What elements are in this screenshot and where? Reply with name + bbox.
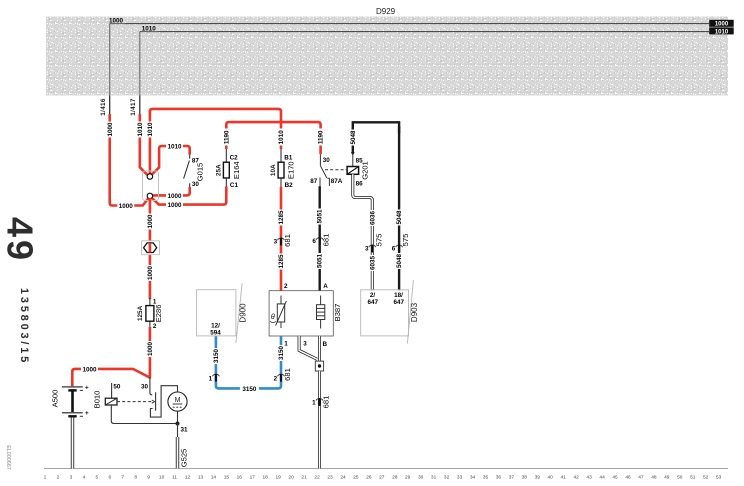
thermostat B387 box: [269, 283, 333, 348]
heater resistor element: [317, 296, 325, 329]
svg-text:135803/15: 135803/15: [18, 288, 30, 365]
svg-text:53: 53: [716, 474, 722, 480]
svg-text:681: 681: [283, 234, 292, 247]
svg-text:D903: D903: [410, 302, 419, 322]
wire 1010 junction to fuse feed bus: [147, 109, 281, 175]
relay contact 30/87/87A: [310, 154, 342, 186]
svg-text:G525: G525: [179, 449, 188, 468]
svg-text:2/: 2/: [370, 292, 376, 299]
svg-text:B2: B2: [285, 182, 294, 189]
svg-text:1000: 1000: [109, 17, 124, 24]
wire 3150 D900 to splice: [212, 336, 285, 393]
svg-text:12/: 12/: [211, 322, 220, 329]
B010 coil actuating dashed link: [117, 400, 155, 403]
svg-text:C1: C1: [230, 182, 239, 189]
svg-text:33: 33: [457, 474, 463, 480]
wire 1000 E286 to B010 pin 30: [146, 327, 154, 379]
svg-text:1000: 1000: [147, 266, 154, 281]
svg-text:44: 44: [599, 474, 605, 480]
svg-text:86: 86: [356, 180, 364, 187]
svg-text:16: 16: [237, 474, 243, 480]
svg-text:2: 2: [153, 323, 157, 330]
svg-text:18/: 18/: [394, 292, 403, 299]
crimp joint connector: [142, 241, 160, 255]
fuse E286 125A: [137, 298, 163, 330]
relay coil B010: [105, 398, 117, 405]
svg-text:87: 87: [310, 178, 318, 185]
svg-text:24: 24: [340, 474, 346, 480]
svg-text:50: 50: [113, 383, 121, 390]
relay contact G015: [184, 155, 200, 188]
svg-text:36: 36: [496, 474, 502, 480]
svg-text:G201: G201: [361, 161, 370, 180]
wire 1000 battery to B010 pin 30: [72, 365, 150, 386]
svg-text:6036: 6036: [369, 211, 376, 226]
svg-text:A: A: [323, 283, 328, 290]
svg-text:2: 2: [274, 376, 278, 383]
ground wire from B387 pins 3 and B: [299, 336, 319, 361]
battery ground wire: [71, 418, 74, 469]
connector 681 pin 2 on wire 3150: [274, 368, 292, 382]
B010 coil ground path: [111, 405, 177, 424]
svg-text:19: 19: [276, 474, 282, 480]
svg-text:29: 29: [405, 474, 411, 480]
label D929: [376, 7, 396, 16]
svg-text:C2: C2: [230, 155, 239, 162]
svg-text:28: 28: [392, 474, 398, 480]
svg-text:1000: 1000: [167, 202, 182, 209]
svg-text:1190: 1190: [223, 130, 230, 144]
svg-text:39: 39: [535, 474, 541, 480]
svg-text:1010: 1010: [167, 144, 182, 151]
svg-text:681: 681: [283, 368, 292, 381]
svg-text:1285: 1285: [278, 210, 285, 225]
svg-text:42: 42: [574, 474, 580, 480]
label G015: [196, 163, 205, 182]
svg-text:B010: B010: [93, 391, 102, 409]
wire 1000 E164 to junction: [151, 187, 226, 210]
svg-text:5048: 5048: [350, 130, 357, 145]
svg-text:47: 47: [638, 474, 644, 480]
svg-text:1010: 1010: [147, 122, 154, 137]
svg-text:31: 31: [431, 474, 437, 480]
svg-text:125A: 125A: [137, 305, 144, 321]
svg-text:1000: 1000: [167, 193, 182, 200]
wire 1010 to fuse E170: [278, 129, 286, 150]
wire 1/416 1000 from bus to junction: [100, 24, 149, 211]
svg-text:87A: 87A: [331, 178, 343, 185]
svg-text:B1: B1: [284, 155, 293, 162]
label A500: [51, 390, 60, 408]
svg-text:M: M: [175, 397, 181, 404]
connector D903 outline: [361, 280, 419, 344]
svg-text:41: 41: [561, 474, 567, 480]
svg-text:6035: 6035: [369, 256, 376, 271]
svg-text:13: 13: [198, 474, 204, 480]
starter contact bridge: [155, 392, 157, 410]
svg-text:50: 50: [677, 474, 683, 480]
svg-text:647: 647: [394, 299, 405, 306]
svg-text:1285: 1285: [278, 254, 285, 269]
svg-text:25A: 25A: [216, 164, 223, 176]
svg-text:4: 4: [83, 474, 86, 480]
wire 5051 to B387 pin A: [316, 186, 324, 290]
battery A500: [62, 384, 89, 417]
svg-text:1/417: 1/417: [130, 98, 137, 116]
plot id EL000667: [5, 445, 11, 470]
bus wire 1010: [140, 25, 709, 33]
svg-text:D929: D929: [376, 7, 396, 16]
svg-text:27: 27: [379, 474, 385, 480]
connector 575 pin 3 on wire 6036: [365, 234, 383, 253]
svg-text:3150: 3150: [213, 349, 220, 364]
wire 1010 junction to G015 pin 87: [151, 143, 190, 176]
motor to ground wire: [177, 411, 179, 423]
svg-text:6: 6: [312, 238, 316, 245]
svg-text:E164: E164: [232, 161, 241, 179]
starter B010 pin 30 contact: [141, 377, 152, 395]
ruler baseline: [44, 468, 728, 470]
svg-text:12: 12: [185, 474, 191, 480]
ground wire 681 to bottom: [318, 371, 321, 469]
svg-text:10: 10: [159, 474, 165, 480]
fuse E164 25A: [216, 149, 242, 189]
svg-text:E170: E170: [287, 161, 296, 179]
svg-text:+: +: [85, 410, 89, 417]
connector 681 pin 6 on wire 5051: [312, 234, 330, 247]
wire 5048 to D903: [396, 126, 404, 290]
svg-text:2: 2: [284, 283, 288, 290]
svg-text:1000: 1000: [715, 22, 729, 28]
wire 1190 to fuse E164: [223, 129, 231, 150]
svg-text:1010: 1010: [715, 29, 729, 35]
fuse E170 10A: [270, 149, 296, 189]
connector 681 pin 1 on ground wire: [312, 396, 330, 409]
label B010: [93, 391, 102, 409]
svg-text:30: 30: [323, 157, 331, 164]
svg-text:+: +: [85, 384, 89, 391]
svg-text:3: 3: [70, 474, 73, 480]
svg-text:48: 48: [651, 474, 657, 480]
G015 housing outline: [143, 171, 159, 201]
harness band D929: [46, 17, 728, 96]
svg-text:5051: 5051: [317, 209, 324, 224]
connector 681 pin 3 on wire 1285: [274, 234, 292, 247]
svg-text:1190: 1190: [318, 130, 325, 144]
wire 5048 to relay coil G201 pin 85: [349, 128, 363, 167]
svg-text:3: 3: [274, 239, 278, 246]
svg-text:31: 31: [181, 426, 189, 433]
svg-text:575: 575: [401, 234, 410, 247]
svg-text:45: 45: [612, 474, 618, 480]
wire 1/417 1010 from bus to junction: [130, 32, 149, 177]
connector 575 pin 6 on wire 5048: [392, 234, 410, 253]
svg-text:1010: 1010: [278, 130, 285, 145]
svg-text:8: 8: [134, 474, 137, 480]
svg-text:A500: A500: [51, 390, 60, 408]
svg-text:5048: 5048: [396, 210, 403, 225]
svg-text:11: 11: [172, 474, 177, 480]
svg-text:D900: D900: [239, 303, 248, 323]
splice housing with junction: [315, 361, 323, 371]
svg-text:1: 1: [153, 298, 157, 305]
svg-text:1000: 1000: [147, 214, 154, 229]
label B387: [333, 304, 342, 322]
wire 6036 G201 pin 86 to connector: [353, 174, 377, 290]
svg-text:43: 43: [586, 474, 592, 480]
wire 31 to ground G525: [178, 424, 189, 469]
svg-text:594: 594: [210, 329, 221, 336]
junction node lower: [147, 193, 153, 199]
svg-text:1: 1: [44, 474, 47, 480]
svg-text:647: 647: [368, 299, 379, 306]
svg-text:1/416: 1/416: [100, 98, 107, 116]
svg-text:1000: 1000: [147, 342, 154, 357]
svg-text:θ: θ: [271, 312, 275, 321]
svg-text:B387: B387: [333, 304, 342, 322]
svg-text:20: 20: [288, 474, 294, 480]
junction dot: [176, 422, 180, 426]
svg-text:30: 30: [141, 383, 149, 390]
svg-text:49: 49: [0, 217, 41, 263]
temperature sensor element: [270, 296, 286, 329]
svg-text:2: 2: [57, 474, 60, 480]
svg-text:3150: 3150: [242, 386, 257, 393]
terminal box 1010: [709, 27, 734, 35]
terminal box 1000: [709, 20, 734, 28]
relay coil G201: [347, 167, 359, 175]
svg-text:22: 22: [314, 474, 320, 480]
svg-text:26: 26: [366, 474, 372, 480]
svg-text:9: 9: [147, 474, 150, 480]
bus wire 1000: [108, 17, 709, 25]
svg-text:23: 23: [327, 474, 333, 480]
ruler numbers 1-53: [44, 474, 722, 480]
svg-text:1010: 1010: [142, 25, 157, 32]
svg-text:35: 35: [483, 474, 489, 480]
fuse feed bus wire: [226, 122, 320, 133]
svg-text:17: 17: [250, 474, 256, 480]
connector pin 1 on wire 3150: [209, 374, 220, 382]
svg-text:1: 1: [209, 376, 213, 383]
sheet number 135803/15: [18, 288, 30, 365]
motor M1: [168, 392, 187, 411]
label G201: [361, 161, 370, 180]
svg-text:1: 1: [312, 400, 316, 407]
svg-text:34: 34: [470, 474, 476, 480]
starter lower contact to motor wire: [150, 386, 177, 417]
svg-text:5: 5: [95, 474, 98, 480]
svg-text:49: 49: [664, 474, 670, 480]
wire 5048 top bus: [353, 122, 399, 133]
svg-text:1000: 1000: [82, 367, 97, 374]
svg-text:30: 30: [418, 474, 424, 480]
svg-text:681: 681: [322, 234, 331, 247]
svg-text:38: 38: [522, 474, 528, 480]
svg-text:14: 14: [211, 474, 217, 480]
wire 1285 E170 to B387 pin 2: [278, 187, 286, 291]
svg-text:5051: 5051: [317, 254, 324, 269]
svg-text:25: 25: [353, 474, 359, 480]
svg-text:681: 681: [322, 396, 331, 409]
svg-text:10A: 10A: [270, 164, 277, 176]
svg-text:40: 40: [548, 474, 554, 480]
svg-text:37: 37: [509, 474, 515, 480]
svg-text:B: B: [323, 341, 328, 348]
svg-text:E286: E286: [154, 305, 163, 323]
svg-text:3: 3: [303, 340, 307, 347]
svg-text:1010: 1010: [137, 122, 144, 137]
page number 49: [0, 217, 41, 263]
wire 1190 to relay contact: [317, 129, 325, 155]
svg-text:EL000667: EL000667: [5, 445, 11, 470]
svg-text:7: 7: [121, 474, 124, 480]
svg-text:1000: 1000: [119, 203, 134, 210]
svg-text:3150: 3150: [278, 346, 285, 361]
junction node upper: [147, 174, 153, 180]
control unit D900 outline: [197, 284, 248, 343]
svg-text:G015: G015: [196, 163, 205, 182]
svg-text:32: 32: [444, 474, 450, 480]
svg-text:52: 52: [703, 474, 709, 480]
svg-text:18: 18: [263, 474, 269, 480]
svg-text:5048: 5048: [396, 254, 403, 269]
relay actuating dashed link: [325, 169, 347, 171]
wire 1000 junction down to E286: [146, 198, 154, 299]
svg-text:6: 6: [392, 246, 396, 253]
wire 1000 G015 pin 30 to junction: [153, 187, 190, 200]
ground G525 label: [179, 449, 188, 468]
svg-text:1000: 1000: [107, 122, 114, 137]
svg-text:46: 46: [625, 474, 631, 480]
svg-text:15: 15: [224, 474, 230, 480]
svg-text:3: 3: [365, 246, 369, 253]
svg-text:6: 6: [108, 474, 111, 480]
svg-text:21: 21: [301, 474, 307, 480]
B010 pin 50: [112, 383, 121, 398]
svg-text:51: 51: [690, 474, 696, 480]
svg-text:575: 575: [374, 234, 383, 247]
